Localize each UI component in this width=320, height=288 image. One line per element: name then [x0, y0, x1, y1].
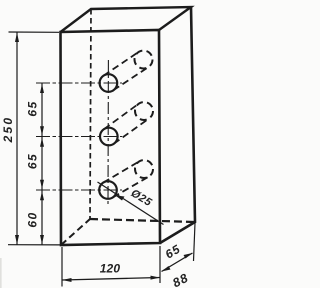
- svg-text:120: 120: [100, 262, 121, 276]
- leader line for dia 25: [98, 182, 164, 225]
- hole 3 bore lines (hidden): [103, 162, 149, 198]
- svg-text:65: 65: [26, 153, 40, 169]
- hole 3 back circle (hidden): [135, 160, 153, 178]
- block right face: [160, 7, 195, 243]
- arrowheads: [15, 33, 193, 283]
- hole 3 centerlines: [36, 189, 122, 191]
- hidden back-bottom edge: [90, 219, 195, 222]
- hole 1 back circle (hidden): [135, 51, 153, 69]
- hole 1 front circle: [100, 74, 118, 92]
- 250 arrows: [15, 33, 19, 43]
- dimension line 120: [62, 278, 160, 281]
- scan smudge left edge: [0, 258, 2, 288]
- hole 1 bore lines (hidden): [104, 52, 149, 90]
- hidden back-left edge: [90, 9, 91, 219]
- block front face: [61, 30, 161, 245]
- svg-text:60: 60: [26, 211, 40, 227]
- dimension chain line 65/65/60: [41, 84, 43, 245]
- hole 1 centerlines: [36, 82, 122, 84]
- dimension line 65 (depth): [162, 253, 193, 272]
- dimension extension lines: [8, 32, 195, 287]
- svg-text:Ø25: Ø25: [129, 187, 155, 209]
- hole 2 bore lines (hidden): [104, 104, 149, 144]
- svg-text:65: 65: [163, 242, 183, 262]
- svg-text:88: 88: [170, 271, 191, 288]
- hole 2 back circle (hidden): [135, 102, 153, 120]
- hole 3 front circle: [99, 181, 117, 199]
- hole 2 centerlines: [36, 136, 122, 138]
- hole 2 front circle: [100, 128, 118, 146]
- svg-text:65: 65: [26, 100, 40, 116]
- chain arrows: [40, 84, 44, 93]
- dia 25 leader arrow: [115, 195, 124, 200]
- holes common vertical centerline: [107, 60, 109, 205]
- dimension line 250: [16, 33, 18, 245]
- 120 arrows: [62, 278, 72, 282]
- hidden bottom-left diagonal edge: [61, 219, 90, 245]
- svg-text:250: 250: [1, 116, 15, 144]
- 65 depth arrows: [162, 266, 171, 272]
- block top face: [61, 7, 192, 32]
